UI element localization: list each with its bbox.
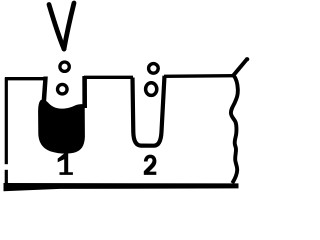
top surface right segment [164,74,234,78]
well 1 right wall above liquid [82,76,87,108]
left border of block [5,78,8,188]
torn edge tip blob [245,57,249,61]
bubble A2 above well 1 (lower) [58,84,68,94]
bubble B2 above well 2 (lower) [146,83,157,96]
scan gap in left border [3,164,8,170]
well 1 left wall above liquid [41,77,47,104]
label 1 under well 1 [58,154,73,175]
bubble B1 above well 2 (upper) [149,64,159,74]
torn right edge of block [231,59,248,184]
bottom border bar of block [4,183,239,191]
well 2 outline (empty U) [133,76,165,146]
bubble A1 above well 1 (upper) [60,62,69,71]
label 2 under well 2 [144,155,157,175]
top surface left segment [5,77,46,80]
pouring funnel V above well 1 [49,3,74,49]
top surface middle segment between wells [84,76,133,79]
liquid sample filling well 1 (black) [38,100,85,154]
